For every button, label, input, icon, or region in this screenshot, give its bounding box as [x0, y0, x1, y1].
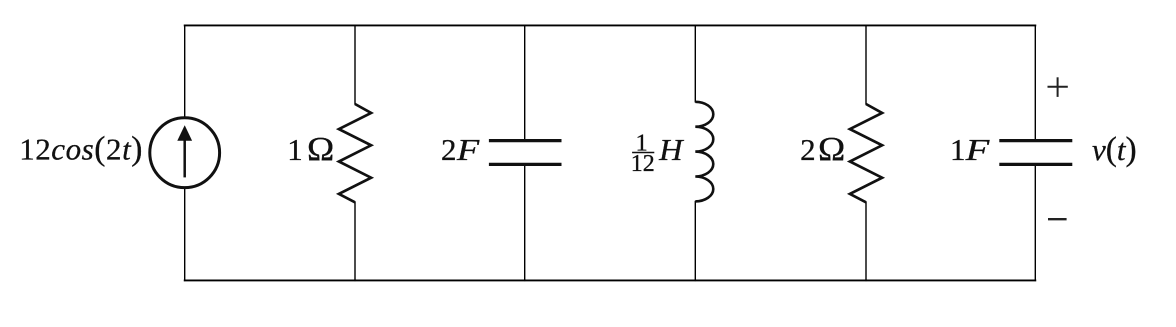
svg-text:Ω: Ω: [818, 130, 845, 167]
svg-text:Ω: Ω: [307, 130, 334, 167]
svg-text:12: 12: [631, 151, 655, 177]
svg-text:12cos(2t): 12cos(2t): [19, 130, 143, 167]
svg-text:2: 2: [800, 132, 816, 167]
svg-text:F: F: [456, 133, 480, 167]
svg-text:F: F: [964, 132, 989, 166]
svg-text:H: H: [658, 132, 685, 166]
svg-text:1: 1: [950, 132, 966, 167]
svg-text:2: 2: [441, 132, 457, 167]
svg-text:v(t): v(t): [1092, 131, 1137, 168]
svg-text:1: 1: [287, 132, 303, 167]
